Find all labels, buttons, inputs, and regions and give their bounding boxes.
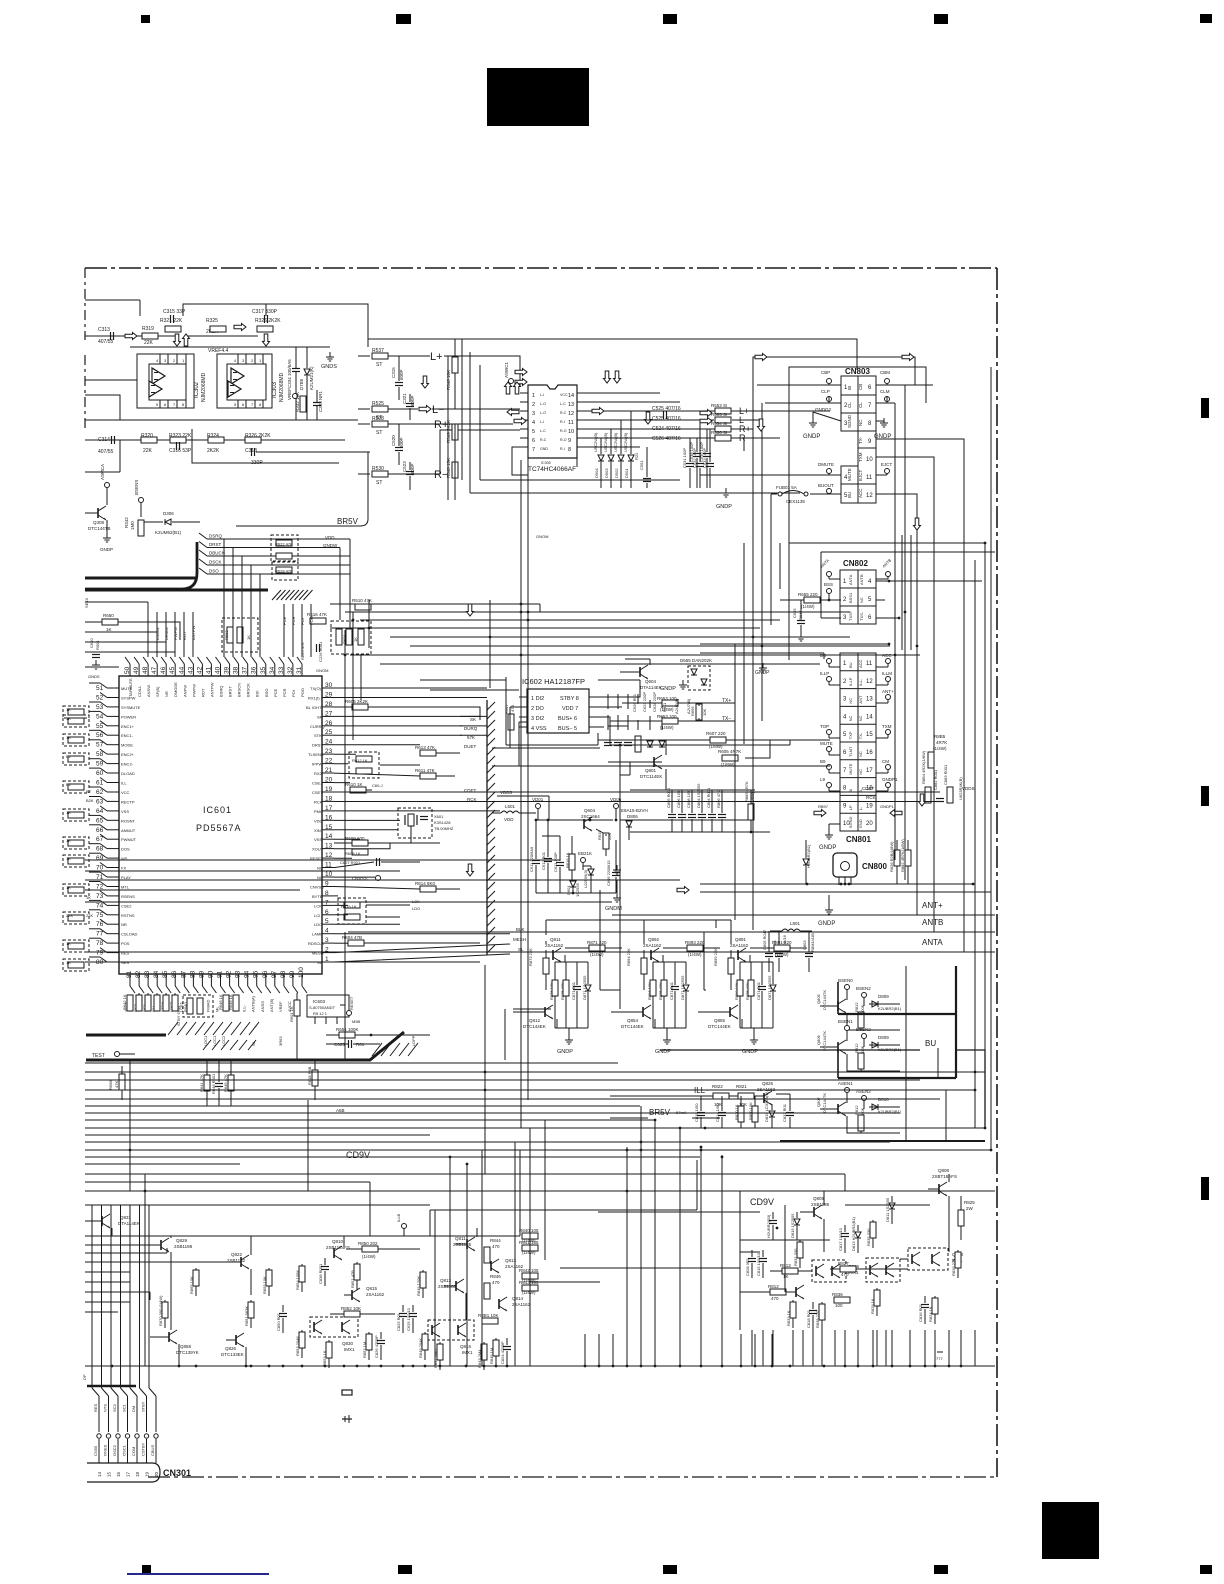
ground GNDP @547 [557, 1035, 573, 1055]
wire under opamps [85, 419, 358, 421]
pin 6 IC601 [314, 909, 334, 918]
svg-text:10: 10 [866, 457, 873, 463]
svg-text:24: 24 [325, 739, 333, 746]
svg-text:3 DI2: 3 DI2 [531, 716, 544, 722]
svg-text:15: 15 [866, 732, 873, 738]
pin 80 IC601 [96, 957, 130, 966]
svg-text:48: 48 [142, 666, 149, 674]
svg-text:NC: NC [317, 875, 323, 880]
svg-text:SYSMUTE: SYSMUTE [121, 705, 141, 710]
svg-text:VCC: VCC [121, 790, 130, 795]
svg-text:K3S1428: K3S1428 [434, 820, 451, 825]
svg-text:MUTE: MUTE [847, 468, 852, 481]
registration mark top 1 [141, 15, 150, 23]
svg-text:R605 2K2K: R605 2K2K [345, 699, 368, 704]
svg-text:93: 93 [235, 970, 242, 978]
svg-text:R321 22K: R321 22K [160, 318, 183, 324]
svg-text:R614 8K0: R614 8K0 [415, 881, 436, 886]
svg-text:35: 35 [260, 666, 267, 674]
svg-text:CN800: CN800 [862, 862, 887, 871]
svg-text:ANPW: ANPW [182, 685, 187, 697]
svg-text:R893 220: R893 220 [685, 940, 705, 945]
svg-text:2SBT18AFS: 2SBT18AFS [932, 1174, 957, 1179]
resistor R827 [830, 1261, 866, 1277]
capacitor float [342, 1415, 352, 1423]
svg-text:R806 47K: R806 47K [716, 790, 721, 808]
svg-text:19: 19 [866, 803, 873, 809]
ground GNDP left [803, 418, 820, 440]
resistor R826b [889, 840, 900, 884]
svg-text:CSEJ: CSEJ [312, 781, 322, 786]
wire v dbus c2 [232, 614, 234, 657]
pin 97 IC601 [269, 970, 280, 1012]
wire bu drop [906, 966, 946, 1141]
svg-text:1: 1 [532, 393, 535, 399]
component D871 1S2555 @645 [680, 962, 689, 1028]
svg-text:LDPP: LDPP [411, 1035, 416, 1046]
wire dmute [700, 474, 841, 476]
svg-text:R332 10K: R332 10K [295, 392, 300, 412]
pin 37 IC601 [242, 657, 251, 697]
svg-text:(1/4W): (1/4W) [590, 952, 604, 957]
resistor R893 220 [685, 940, 705, 957]
board outline bottom [148, 1476, 997, 1478]
wire h br top2 [845, 1204, 930, 1206]
transistor Q8 06 [816, 1031, 846, 1054]
svg-text:R-I: R-I [560, 420, 565, 424]
svg-text:12: 12 [325, 852, 333, 859]
testpoint VREF [287, 388, 298, 400]
svg-text:1K: 1K [66, 838, 71, 843]
capacitor C526 [652, 416, 681, 422]
wire vert b [752, 480, 754, 543]
wire top rail over bus [236, 452, 368, 526]
resistor R605 [345, 699, 368, 710]
pin 34 IC601 [269, 657, 278, 697]
svg-text:2 DO: 2 DO [531, 706, 545, 712]
svg-text:2K2K: 2K2K [207, 448, 220, 454]
testpoint B9 cn801 [820, 759, 840, 773]
pin 30 IC601 [310, 682, 334, 691]
testpoint GNDP1 cn801r [876, 777, 898, 791]
svg-text:OSC1: OSC1 [122, 1444, 127, 1456]
IC IC601 PD5567A [119, 676, 322, 974]
wire h ic602 in1 [420, 679, 506, 681]
wire h mid extra2 [560, 1267, 740, 1269]
wire h bl stub2 [85, 1248, 167, 1253]
wire input rail [85, 335, 258, 337]
svg-text:ANT+: ANT+ [882, 689, 894, 694]
pin 93 IC601 [233, 970, 244, 1012]
svg-text:74: 74 [96, 902, 104, 909]
resistor R647 [172, 993, 178, 1011]
registration mark bottom 2 [398, 1565, 412, 1574]
resistor R899 22K [713, 948, 734, 990]
wire v br b [784, 1205, 786, 1292]
resistor R605b [718, 749, 741, 767]
svg-text:D306: D306 [163, 511, 174, 516]
capacitor C613 [542, 836, 564, 893]
svg-text:LCK: LCK [314, 903, 322, 908]
wire ic602 right [597, 680, 640, 745]
wire r609 [334, 839, 440, 867]
wire h mid extra1 [519, 1150, 521, 1236]
svg-text:19: 19 [145, 1471, 150, 1477]
pin 35 IC601 [260, 657, 269, 697]
pin 71 IC601 [96, 872, 131, 881]
svg-text:C551: C551 [639, 460, 644, 470]
svg-text:BU: BU [925, 1039, 936, 1048]
wire h band1 3 [360, 619, 780, 621]
svg-text:D655 DAN202K: D655 DAN202K [680, 658, 712, 663]
svg-text:SYSPW: SYSPW [121, 696, 136, 701]
svg-text:NC: NC [858, 751, 863, 757]
pin 28 IC601 [306, 701, 334, 710]
wire h band2 14 [85, 1156, 300, 1158]
transistor Q813c [491, 1258, 524, 1273]
svg-text:5: 5 [532, 429, 535, 435]
svg-text:POI: POI [300, 618, 305, 625]
svg-text:MTL: MTL [121, 885, 130, 890]
svg-text:85: 85 [162, 970, 169, 978]
capacitor C316 [169, 442, 192, 454]
resistor R8B1 [478, 1313, 499, 1324]
svg-text:ILL-: ILL- [858, 678, 863, 686]
pin 20 IC601 [312, 777, 334, 786]
wire cn301 risers [92, 1205, 149, 1388]
resistor R870 [158, 1295, 168, 1328]
wire ic602 low rails [492, 707, 830, 766]
svg-text:Q811: Q811 [455, 1236, 466, 1241]
svg-text:2W: 2W [966, 1206, 974, 1211]
svg-text:43: 43 [187, 666, 194, 674]
svg-text:11: 11 [568, 420, 574, 426]
svg-text:Q825: Q825 [762, 1081, 774, 1086]
pin 90 IC601 [205, 970, 216, 1012]
svg-text:1K: 1K [353, 637, 358, 642]
svg-text:TX-: TX- [858, 732, 863, 739]
svg-text:TB.00MHZ: TB.00MHZ [434, 826, 454, 831]
wire v bus d [484, 965, 486, 1174]
pin 48 IC601 [142, 657, 151, 697]
bus hatch low 1 [168, 1022, 259, 1035]
resistor R8 05 [854, 1002, 865, 1028]
svg-text:BI: BI [847, 386, 852, 390]
wire h band2 1 [85, 1062, 618, 1064]
svg-text:CURRQ: CURRQ [310, 724, 325, 729]
capacitor C524 [652, 426, 681, 432]
svg-text:330P: 330P [251, 460, 263, 466]
svg-text:NTS: NTS [103, 1404, 108, 1412]
svg-text:600P: 600P [410, 395, 415, 406]
pin 77 IC601 [96, 929, 138, 938]
ground GNDP ic305 [454, 339, 456, 409]
wire CN301 pin 16 [111, 1388, 121, 1477]
svg-text:R825: R825 [964, 1200, 975, 1205]
testpoint VDD2 [0, 0, 1, 1]
svg-text:Q815: Q815 [366, 1286, 378, 1291]
transistor pair Q815c IMX1 [812, 1260, 860, 1282]
testpoint MUTE cn801 [820, 741, 840, 755]
resistor pack left 815 [63, 809, 89, 821]
wire h br row2 [598, 1211, 760, 1213]
component D871 1S2555 @547 [582, 962, 591, 1028]
wire bottom rail [85, 1365, 995, 1367]
wire v cn803 4 [771, 543, 780, 625]
capacitor C826 [374, 1332, 385, 1360]
svg-text:R658: R658 [108, 1080, 113, 1090]
svg-text:SC3: SC3 [112, 1403, 117, 1412]
svg-text:R842 105: R842 105 [519, 1268, 539, 1273]
svg-text:VSS: VSS [121, 809, 129, 814]
svg-text:IC303: IC303 [272, 381, 278, 398]
resistor R843 105 [519, 1280, 539, 1295]
wire ill [610, 1094, 790, 1104]
svg-text:R871 220: R871 220 [587, 940, 607, 945]
registration mark top 2 [396, 14, 411, 24]
svg-text:DTC144EK: DTC144EK [523, 1024, 546, 1029]
wire v bus a [520, 460, 522, 1128]
resistor R8B3 [943, 764, 953, 803]
wire tx- [610, 718, 735, 721]
transistor Q8 05 [816, 990, 846, 1013]
resistor R851b [350, 1262, 360, 1290]
resistor R853c [322, 1340, 332, 1368]
capacitor C805b [762, 929, 773, 972]
svg-text:6: 6 [532, 438, 535, 444]
resistor pack left 712 [63, 706, 89, 718]
wire cap gnd [696, 480, 698, 488]
diode D504 [593, 432, 604, 488]
svg-text:POO: POO [300, 688, 305, 697]
svg-text:POO: POO [309, 616, 314, 625]
diode D601 [566, 880, 580, 897]
pin 64 IC601 [96, 806, 129, 815]
capacitor C525 [652, 406, 681, 419]
svg-text:1K: 1K [66, 960, 71, 965]
svg-text:R650: R650 [103, 613, 114, 618]
wire capcol rail [608, 726, 662, 762]
registration mark bottom 4 [934, 1565, 948, 1574]
svg-text:LCI: LCI [314, 913, 320, 918]
resistor R855 [262, 1268, 272, 1296]
svg-text:NR: NR [121, 922, 127, 927]
svg-text:R8B5: R8B5 [934, 734, 946, 739]
ground GNDW top [613, 865, 621, 874]
svg-text:BU: BU [848, 662, 853, 668]
svg-text:EJCT: EJCT [881, 462, 893, 467]
arrow down right [914, 518, 921, 530]
svg-text:PMC: PMC [314, 809, 323, 814]
diode D820 [803, 840, 811, 884]
diode K2UM21 [304, 347, 314, 420]
svg-text:DTC114EK: DTC114EK [640, 774, 662, 779]
capacitor C805 [666, 787, 676, 832]
pin 92 IC601 [224, 970, 235, 1012]
testpoint EB21K [578, 851, 592, 870]
wire lower row [85, 439, 345, 441]
svg-text:13: 13 [325, 843, 333, 850]
diode D501 [623, 411, 634, 488]
svg-text:ILLP: ILLP [848, 677, 853, 686]
svg-text:25: 25 [325, 729, 333, 736]
svg-text:L−: L− [432, 404, 445, 416]
resistor R653 [657, 696, 731, 712]
pin 86 IC601 [169, 970, 180, 1012]
registration mark bottom 1 [142, 1565, 151, 1573]
wire CN301 pin 20 [149, 1388, 159, 1477]
resistor R643 [136, 993, 142, 1011]
pin 100 IC601 [296, 967, 307, 1012]
testpoint ASWC1 [504, 362, 514, 384]
svg-text:4: 4 [532, 420, 535, 426]
resistor R556 [711, 430, 731, 441]
resistor pack left 787 [63, 781, 89, 793]
label BR5V mid [610, 1108, 720, 1118]
svg-text:A2U7(B): A2U7(B) [686, 698, 691, 714]
op-amp IC302 [137, 354, 207, 408]
svg-text:BSEN2: BSEN2 [856, 1027, 871, 1032]
IC305 [512, 385, 585, 475]
wire v left col1 [129, 1060, 131, 1191]
svg-text:63: 63 [96, 798, 104, 805]
svg-text:BRSCN: BRSCN [237, 683, 242, 697]
resistor R649 [228, 994, 239, 1011]
svg-text:FM/AD: FM/AD [205, 999, 210, 1012]
wire h band2 13 [300, 1156, 700, 1158]
svg-text:C321: C321 [402, 393, 407, 404]
component R875 47K @732 [745, 962, 754, 1028]
svg-text:TOP: TOP [820, 724, 829, 729]
svg-text:1K: 1K [66, 716, 71, 721]
arrow [263, 334, 270, 346]
transistor Q822 [227, 1236, 251, 1295]
svg-text:DTC144EK: DTC144EK [708, 1024, 731, 1029]
capacitor C334 [287, 347, 300, 420]
svg-text:LP: LP [848, 805, 853, 810]
wire CN301 pin 15 [102, 1388, 112, 1477]
junction dots bottom [111, 1365, 963, 1368]
svg-text:92: 92 [226, 970, 233, 978]
wire tx+ [622, 703, 735, 706]
node ANTA [85, 938, 995, 952]
pin 83 IC601 [142, 970, 153, 1012]
svg-text:VREF: VREF [287, 388, 292, 400]
svg-text:D502: D502 [614, 468, 619, 478]
svg-text:52: 52 [96, 695, 104, 702]
capacitor C611 [529, 820, 540, 893]
pin 88 IC601 [187, 970, 198, 1012]
svg-text:CN803: CN803 [845, 367, 870, 376]
svg-text:C526 407/16: C526 407/16 [652, 436, 681, 442]
capacitor C533 [702, 429, 714, 488]
resistor R604 [334, 935, 480, 946]
svg-text:L601: L601 [505, 804, 516, 809]
svg-text:R633: R633 [224, 630, 229, 640]
board outline left [84, 268, 86, 340]
svg-text:R8B1 10K: R8B1 10K [478, 1313, 499, 1318]
wire h b rails6 [85, 961, 480, 963]
wire h band3 2 [85, 1182, 370, 1236]
wire CN301 pin 17 [121, 1388, 131, 1477]
svg-text:DSRQ: DSRQ [209, 534, 223, 539]
capacitor C315 [163, 309, 186, 323]
svg-text:ROT: ROT [182, 631, 187, 640]
svg-text:79: 79 [96, 950, 104, 957]
wire v bus e [504, 1009, 506, 1060]
pin 12 IC601 [310, 852, 334, 861]
svg-text:ANT: ANT [858, 695, 863, 704]
svg-text:GNDS: GNDS [321, 364, 337, 370]
resistor pack R615 [338, 898, 366, 924]
wire v bus c [489, 600, 491, 688]
svg-text:MESH: MESH [312, 951, 324, 956]
pin 19 IC601 [312, 786, 334, 795]
svg-text:SR: SR [317, 714, 323, 719]
svg-text:19: 19 [325, 786, 333, 793]
svg-text:R827: R827 [838, 1261, 849, 1266]
resistor R8 06 [854, 1043, 865, 1069]
svg-text:14: 14 [325, 833, 333, 840]
svg-text:R8M1/41B: R8M1/41B [810, 933, 815, 952]
svg-text:NJM2068MD: NJM2068MD [201, 372, 207, 402]
svg-text:RCK: RCK [314, 799, 323, 804]
arrow lr1 [700, 410, 712, 417]
pin 15 IC601 [314, 824, 334, 833]
svg-text:DTC144TK: DTC144TK [822, 990, 827, 1010]
svg-text:R555 SI: R555 SI [711, 412, 727, 417]
pin 74 IC601 [96, 900, 132, 909]
registration mark bottom 3 [663, 1565, 677, 1574]
wire vdd5 [497, 796, 549, 820]
wire v bm 6 [529, 1128, 531, 1366]
registration mark right edge [1201, 398, 1209, 418]
component R896 10K @645 [647, 962, 656, 1028]
svg-text:R882 4R7K(1/8W): R882 4R7K(1/8W) [900, 839, 905, 872]
capacitor C808 [686, 789, 696, 832]
bus heavy low 1 [86, 1034, 166, 1037]
svg-text:97: 97 [271, 970, 278, 978]
svg-text:ST: ST [376, 480, 382, 486]
wire h band2 12 [85, 1149, 991, 1151]
svg-text:32: 32 [287, 666, 294, 674]
bus section rail [780, 1140, 985, 1142]
arrow lr2 [700, 418, 712, 425]
svg-text:R894 22K: R894 22K [626, 948, 631, 966]
svg-text:Q822: Q822 [231, 1252, 243, 1257]
svg-text:C525 407/16: C525 407/16 [652, 416, 681, 422]
svg-text:CBP: CBP [821, 370, 830, 375]
svg-text:17: 17 [866, 768, 873, 774]
resistor R844 [484, 1238, 501, 1263]
svg-text:R622 47K: R622 47K [275, 542, 293, 547]
svg-text:Q814: Q814 [512, 1296, 524, 1301]
svg-text:R655 220: R655 220 [798, 592, 818, 597]
svg-text:22K: 22K [66, 913, 73, 918]
svg-text:B2K: B2K [86, 798, 94, 803]
svg-text:C612 R01: C612 R01 [541, 851, 546, 870]
svg-text:ST: ST [376, 362, 382, 368]
arrow down b [467, 864, 474, 876]
testpoint BSEN2 [856, 986, 871, 1006]
wire dbus tap 4 [250, 565, 252, 622]
wire CN301 pin 14 [92, 1388, 102, 1477]
wire DSCK [199, 559, 350, 565]
svg-text:40: 40 [215, 666, 222, 674]
wire CN301 pin 19 [140, 1388, 150, 1477]
svg-text:C824 470BP: C824 470BP [500, 1341, 505, 1364]
capacitor C626 [604, 693, 637, 745]
